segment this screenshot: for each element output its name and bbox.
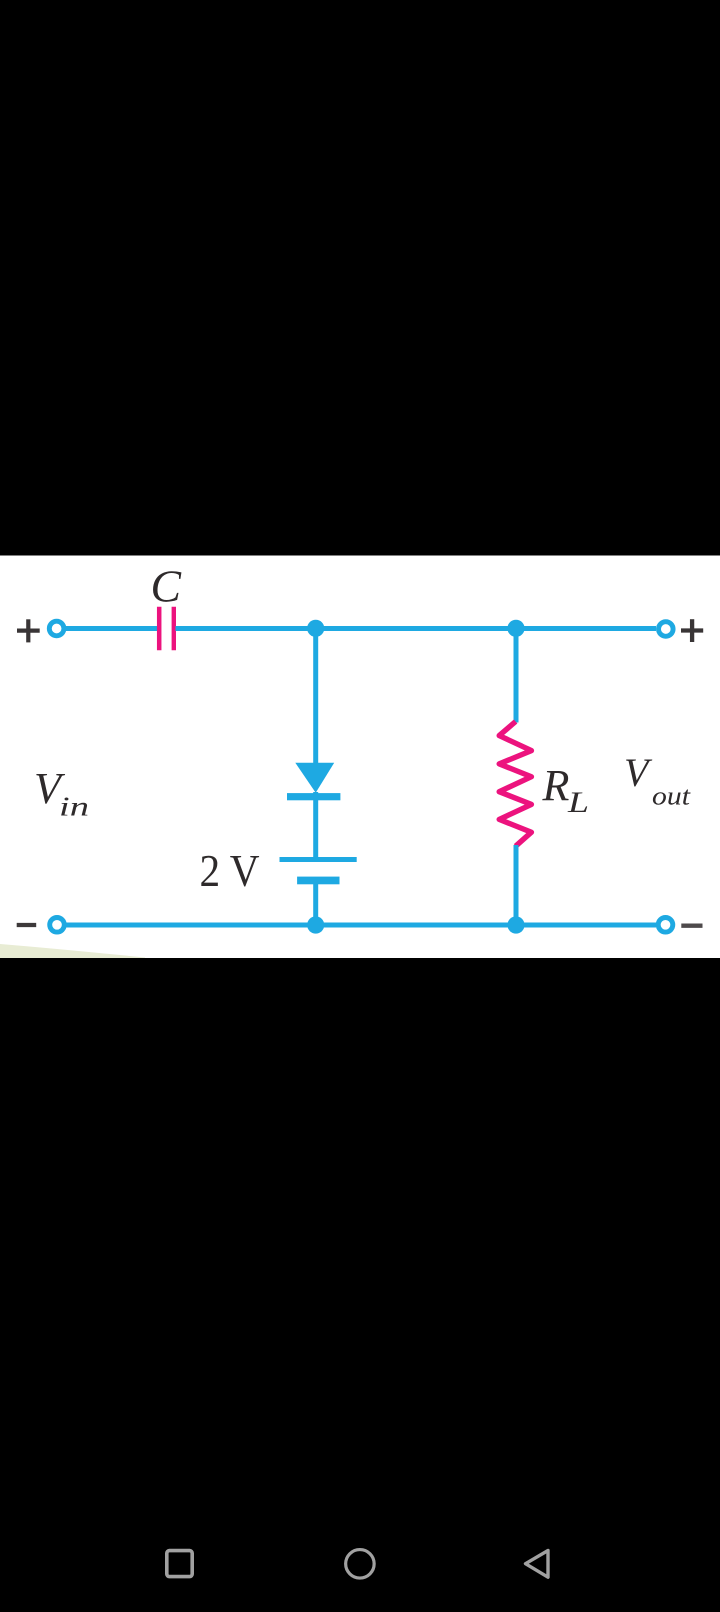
- battery 2V plates: [280, 857, 357, 884]
- wire RL branch upper: [514, 629, 519, 723]
- label - (Vout negative): [681, 924, 702, 928]
- node B (top RL junction): [507, 620, 524, 637]
- wire diode to battery: [313, 792, 318, 859]
- nav back button (triangle): [526, 1551, 549, 1578]
- wire top rail right segment: [176, 626, 657, 631]
- node C (bottom diode junction): [307, 916, 324, 933]
- node A (top diode junction): [307, 620, 324, 637]
- terminal Vin +: [49, 621, 64, 636]
- svg-text:L: L: [567, 786, 589, 819]
- label + (Vout positive): [681, 619, 703, 642]
- terminal Vin -: [50, 918, 65, 933]
- label - (Vin negative): [17, 923, 37, 927]
- svg-text:R: R: [542, 761, 570, 810]
- label RL: [542, 761, 590, 819]
- terminal Vout +: [659, 622, 674, 637]
- label Vin: [34, 764, 89, 822]
- wire diode branch upper: [313, 629, 318, 765]
- wire RL lower: [514, 845, 519, 925]
- nav home button (circle): [346, 1550, 375, 1579]
- wire top rail left segment: [65, 626, 158, 631]
- svg-text:C: C: [151, 562, 183, 612]
- svg-text:2 V: 2 V: [200, 845, 260, 896]
- resistor RL zigzag: [499, 722, 531, 847]
- diode D (triangle and cathode bar): [287, 763, 340, 801]
- wire battery to bottom rail: [313, 884, 318, 925]
- svg-text:in: in: [59, 792, 89, 822]
- svg-text:out: out: [652, 782, 691, 811]
- capacitor C: [159, 607, 174, 650]
- terminal Vout -: [658, 918, 673, 933]
- node D (bottom RL junction): [507, 916, 524, 933]
- wire bottom rail: [66, 923, 656, 928]
- nav recents button (square): [167, 1551, 192, 1577]
- label + (Vin positive): [17, 619, 40, 642]
- label Vout: [624, 750, 691, 811]
